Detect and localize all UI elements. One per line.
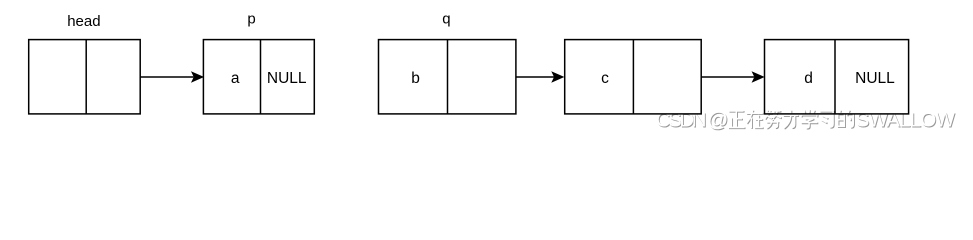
label d [804,70,813,87]
svg-text:d: d [804,70,813,87]
label c [601,70,609,87]
svg-text:q: q [442,11,450,28]
svg-text:c: c [601,70,609,87]
svg-text:b: b [411,70,420,87]
label b [411,70,420,87]
label a [231,70,240,87]
svg-text:head: head [67,13,100,30]
svg-text:a: a [231,70,240,87]
wire arrow c->d [701,72,763,82]
node b-box [379,40,516,114]
node c-box [565,40,702,114]
svg-text:NULL: NULL [855,70,895,87]
watermark CSDN @正在努力学习的SWALLOW (gray layer) [657,110,957,133]
label p [247,11,255,28]
label head [67,13,100,30]
node d-box [765,40,909,114]
node head-box [29,40,141,114]
wire arrow b->c [516,72,563,82]
svg-text:NULL: NULL [267,70,307,87]
label NULL (d-box) [855,70,895,87]
node a-box [203,40,314,114]
label NULL (a-box) [267,70,307,87]
watermark white emboss layer [656,109,956,132]
svg-text:p: p [247,11,255,28]
wire arrow head->a [140,72,203,82]
label q [442,11,450,28]
